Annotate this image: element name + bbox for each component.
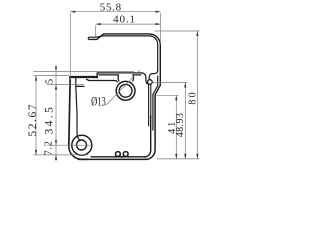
bottom-left outer corner bbox=[69, 146, 88, 159]
right hook finger from box bottom bbox=[149, 70, 158, 80]
arrow 41 top bbox=[175, 95, 177, 100]
dim 40.1 line bbox=[96, 23, 161, 25]
boss circle inner bbox=[77, 140, 87, 150]
svg-text:Ø13: Ø13 bbox=[91, 95, 106, 109]
ext bottom right bbox=[157, 158, 200, 160]
omega notch loop left bbox=[116, 152, 121, 157]
right hook ball bbox=[148, 80, 153, 85]
arrow 5 top (outside above) bbox=[55, 67, 57, 72]
ext line left of 55.8 bbox=[69, 13, 71, 80]
left ext boss center bbox=[47, 144, 92, 146]
left wall outer bbox=[69, 77, 70, 146]
lip end cap bbox=[88, 37, 89, 39]
svg-text:7.2: 7.2 bbox=[44, 141, 55, 156]
svg-text:52.67: 52.67 bbox=[27, 103, 39, 137]
arrow 80 top bbox=[196, 31, 198, 36]
svg-text:41: 41 bbox=[167, 119, 178, 133]
top hook lip inner bbox=[89, 36, 157, 70]
arrow 41 bottom bbox=[175, 154, 177, 159]
fin below ball outer bbox=[148, 84, 150, 126]
arrow 80 bottom bbox=[196, 154, 198, 159]
arrow 48.93 bottom bbox=[184, 154, 186, 159]
arrow 55.8 right bbox=[156, 11, 161, 13]
arrow 52.67 top bbox=[35, 76, 37, 81]
bottom-right corner inner bbox=[144, 116, 151, 157]
step up to ledge bbox=[97, 73, 99, 78]
arrow 55.8 left bbox=[70, 11, 75, 13]
ext line right top bbox=[160, 13, 162, 44]
right wall jog inner diagonal bbox=[153, 76, 158, 95]
circle neck right bbox=[132, 75, 135, 81]
lower wall inner line bbox=[152, 95, 154, 130]
right wall jog outer diagonal bbox=[155, 85, 160, 95]
dim chain vline (5 / 34.5 / 7.2) bbox=[55, 65, 57, 162]
ext 52.67 top bbox=[34, 75, 70, 77]
ledge lower line right of circle bbox=[133, 74, 141, 76]
boss circle outer bbox=[72, 135, 92, 155]
svg-text:40.1: 40.1 bbox=[113, 14, 136, 26]
top hook lip outer bbox=[89, 34, 160, 85]
svg-text:5: 5 bbox=[45, 79, 56, 84]
left wall inner bbox=[76, 78, 81, 141]
ledge upper line bbox=[98, 72, 142, 74]
main top flange surface bbox=[70, 76, 97, 78]
arrow 7.2 bottom (outside below) bbox=[55, 155, 57, 160]
left ext y84.8 bbox=[47, 84, 84, 86]
arrow 52.67 bottom bbox=[35, 150, 37, 155]
svg-text:34.5: 34.5 bbox=[43, 105, 55, 135]
circle neck left bbox=[117, 75, 120, 81]
ledge lower line left of circle bbox=[99, 74, 119, 76]
arrow 48.93 top bbox=[184, 83, 186, 88]
dim 41 vline bbox=[175, 95, 177, 159]
bottom wall inner bbox=[91, 156, 144, 158]
omega notch loop right bbox=[123, 152, 128, 157]
fin below ball inner bbox=[150, 84, 152, 118]
left ext y72 bbox=[34, 71, 135, 73]
O13 circle inner bbox=[119, 84, 132, 97]
dim 80 vline bbox=[196, 31, 198, 159]
arrow 40.1 left bbox=[96, 23, 101, 25]
svg-text:80: 80 bbox=[188, 90, 199, 104]
arrow 5 bottom / 34.5 top (outside) bbox=[55, 85, 57, 90]
O13 circle outer bbox=[116, 81, 135, 100]
arrow 40.1 right bbox=[156, 23, 161, 25]
ext 41 top bbox=[157, 94, 179, 96]
svg-text:55.8: 55.8 bbox=[100, 2, 122, 14]
ext 48.93 top bbox=[153, 82, 188, 84]
bottom-right corner outer bbox=[146, 95, 156, 160]
left ext y155 bbox=[34, 154, 89, 156]
ext line left of 40.1 bbox=[95, 25, 97, 36]
dim 52.67 vline bbox=[35, 76, 37, 155]
inner ceiling line under ledge bbox=[87, 79, 118, 82]
arrow 34.5 bottom / 7.2 top bbox=[55, 140, 57, 145]
dim 55.8 line bbox=[70, 11, 160, 13]
bottom wall outer bbox=[78, 158, 145, 160]
ext 80 top bbox=[155, 30, 200, 32]
leader O13 bbox=[106, 70, 140, 105]
dim 48.93 vline bbox=[184, 83, 186, 159]
left hook finger from ledge bbox=[142, 73, 148, 84]
omega notch entry curves bbox=[115, 155, 116, 157]
omega notch center dip bbox=[120, 155, 124, 157]
interior shelf line bbox=[76, 85, 84, 87]
